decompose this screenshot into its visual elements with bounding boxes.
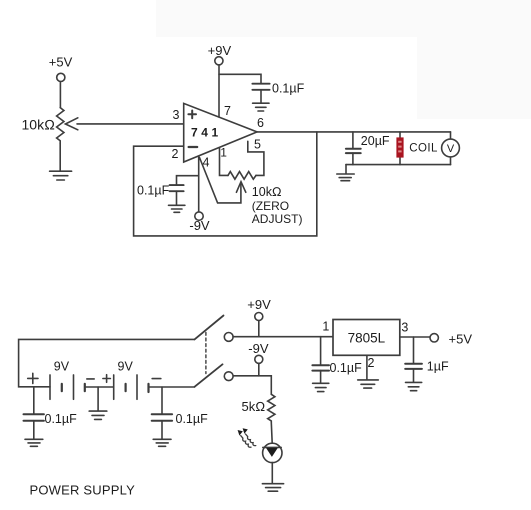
capacitor C1 0.1uF plates: [252, 83, 269, 85]
svg-text:COIL: COIL: [409, 142, 438, 154]
svg-text:0.1µF: 0.1µF: [137, 183, 170, 197]
ground below pin2: [358, 379, 379, 381]
wire pin 5 to pot: [248, 141, 264, 175]
svg-text:1µF: 1µF: [427, 360, 449, 374]
resistor R1 10k pot body: [57, 108, 64, 144]
capacitor C2 0.1uF plates: [170, 184, 184, 186]
node +5V output terminal: [430, 334, 438, 342]
ground center tap: [89, 410, 107, 412]
capacitor C7 1uF tap: [413, 337, 415, 363]
ground below C4: [25, 438, 43, 440]
svg-text:0.1µF: 0.1µF: [45, 412, 78, 426]
battery B2 plates: [113, 375, 115, 399]
wire branch to bypass cap: [219, 74, 261, 83]
wire +9V rail to regulator: [233, 336, 333, 338]
resistor R2 10k zero-adjust pot body: [228, 172, 256, 180]
svg-text:9V: 9V: [118, 360, 134, 374]
wire battery- to switch2: [149, 386, 195, 388]
svg-text:9V: 9V: [54, 360, 70, 374]
wire cap to ground: [260, 90, 262, 103]
wire +9V down to pin 7: [218, 65, 220, 117]
capacitor C3 20uF tap: [352, 132, 354, 149]
svg-text:V: V: [447, 143, 455, 155]
switch gang dashed link: [205, 333, 207, 374]
node +5V terminal: [57, 73, 65, 81]
wire switch2 to 5k: [233, 376, 271, 395]
svg-text:10kΩ: 10kΩ: [252, 185, 282, 199]
capacitor C4 0.1uF left: [33, 387, 35, 414]
capacitor C6 0.1uF tap: [320, 337, 322, 365]
svg-text:5: 5: [254, 137, 261, 151]
LED arrowhead 2: [238, 430, 243, 436]
plus sign battery1: [28, 373, 38, 383]
LED D1 body: [263, 443, 282, 462]
switch S1b contact: [224, 372, 233, 381]
wire bottom rail coil/meter: [346, 164, 451, 166]
wire feedback loop pin2 to output: [134, 132, 317, 236]
ground below R1: [50, 170, 72, 172]
decorative scan background blocks: [156, 0, 531, 37]
svg-text:+9V: +9V: [208, 43, 232, 58]
svg-text:0.1µF: 0.1µF: [272, 81, 305, 95]
LED light arrows: [246, 434, 256, 446]
op-amp plus input symbol: [188, 111, 196, 119]
node -9V terminal: [195, 212, 203, 220]
wire wiper to op-amp pin 3: [77, 123, 184, 125]
wire pot wiper diagonal from pin4: [200, 158, 241, 203]
wire R3 to LED: [270, 423, 273, 444]
ground below C5: [153, 438, 171, 440]
ground below C1: [253, 102, 269, 104]
wire cap branch at pin4: [177, 176, 199, 185]
svg-text:741: 741: [191, 126, 222, 140]
switch S1a lever: [195, 316, 224, 340]
wire +9V terminal stem: [258, 321, 260, 337]
battery B1 plates: [49, 375, 51, 399]
LED D1 triangle: [266, 448, 278, 457]
wire op-amp output pin 6 rail: [257, 131, 450, 133]
wire battery+ loop to switch1: [19, 339, 195, 386]
wire -9V terminal stem: [258, 363, 260, 375]
svg-text:+9V: +9V: [247, 297, 271, 312]
minus sign battery2: [152, 378, 161, 380]
svg-text:2: 2: [368, 356, 375, 370]
switch S1b lever: [195, 364, 223, 387]
svg-text:POWER SUPPLY: POWER SUPPLY: [30, 483, 136, 498]
svg-text:3: 3: [401, 321, 408, 335]
svg-text:7: 7: [224, 104, 231, 118]
svg-text:+5V: +5V: [49, 55, 73, 70]
svg-text:6: 6: [257, 116, 264, 130]
node +9V supply terminal: [255, 313, 263, 321]
node -9V supply terminal: [255, 355, 263, 363]
svg-text:7805L: 7805L: [348, 330, 386, 345]
capacitor C5 0.1uF right: [161, 387, 163, 414]
plus sign battery2: [103, 375, 111, 383]
svg-text:20µF: 20µF: [361, 134, 390, 148]
wire pin 4 to -9V: [198, 157, 200, 212]
wire battery mid link: [85, 386, 114, 388]
coil L1 lead: [399, 132, 401, 165]
svg-text:+5V: +5V: [449, 331, 473, 346]
voltmeter M1 leads: [450, 132, 452, 139]
LED arrowhead 1: [243, 428, 248, 434]
node +9V terminal top: [215, 57, 223, 65]
svg-text:(ZERO: (ZERO: [252, 199, 289, 213]
svg-text:-9V: -9V: [189, 218, 210, 233]
svg-text:5kΩ: 5kΩ: [242, 399, 266, 414]
ground below C6: [313, 382, 329, 384]
minus sign battery1: [87, 378, 94, 380]
wire +5V to pot top: [59, 82, 61, 108]
wire pin 1 to pot: [220, 148, 229, 175]
wire LED to ground: [271, 463, 273, 484]
voltmeter M1 body: [442, 139, 460, 157]
svg-text:-9V: -9V: [248, 341, 269, 356]
wire pot bottom to ground: [59, 144, 61, 171]
regulator U2 7805L box: [333, 320, 400, 356]
svg-text:3: 3: [173, 108, 180, 122]
ground below C2: [169, 204, 185, 206]
svg-text:2: 2: [172, 147, 179, 161]
ground below C3: [345, 165, 347, 174]
resistor R3 5k body: [268, 394, 275, 422]
ground below C7: [406, 381, 422, 383]
wire regulator output: [400, 336, 430, 338]
svg-text:0.1µF: 0.1µF: [176, 412, 209, 426]
svg-text:10kΩ: 10kΩ: [22, 117, 56, 133]
pot R2 wiper arrowhead: [236, 182, 245, 193]
wire C2 to ground: [176, 191, 178, 205]
svg-text:1: 1: [220, 145, 227, 159]
svg-text:1: 1: [322, 319, 329, 333]
op-amp U1 741 triangle: [184, 103, 257, 162]
svg-text:ADJUST): ADJUST): [252, 212, 303, 226]
svg-text:0.1µF: 0.1µF: [330, 361, 363, 375]
pot R1 wiper arrow: [65, 118, 77, 130]
wire regulator pin2 to ground: [366, 355, 368, 379]
svg-text:4: 4: [203, 156, 210, 170]
wire center tap to ground: [97, 387, 99, 411]
op-amp minus input symbol: [189, 146, 198, 148]
coil L1 red body: [396, 137, 403, 157]
ground below LED: [262, 483, 283, 485]
switch S1a contact: [224, 333, 233, 342]
